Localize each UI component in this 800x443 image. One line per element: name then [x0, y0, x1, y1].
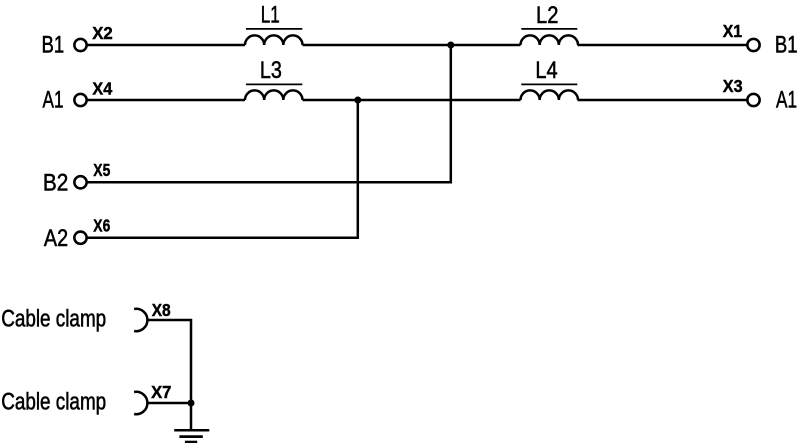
svg-text:A2: A2 [44, 225, 68, 252]
svg-text:L1: L1 [261, 2, 280, 29]
svg-text:X4: X4 [92, 79, 112, 99]
svg-text:L2: L2 [536, 2, 558, 29]
svg-text:B1: B1 [42, 31, 65, 58]
svg-text:L4: L4 [535, 57, 557, 84]
svg-text:Cable clamp: Cable clamp [1, 305, 106, 332]
svg-text:X3: X3 [723, 76, 743, 96]
svg-text:A1: A1 [776, 86, 797, 113]
svg-text:Cable clamp: Cable clamp [1, 389, 106, 416]
svg-text:X6: X6 [93, 215, 110, 235]
svg-text:B2: B2 [43, 169, 68, 196]
svg-text:L3: L3 [260, 57, 282, 84]
svg-text:X7: X7 [151, 382, 171, 402]
svg-text:X8: X8 [152, 300, 171, 320]
svg-text:B1: B1 [775, 31, 798, 58]
svg-text:X2: X2 [92, 23, 113, 43]
svg-text:X5: X5 [93, 160, 110, 180]
svg-text:X1: X1 [723, 21, 743, 41]
svg-text:A1: A1 [43, 86, 64, 113]
